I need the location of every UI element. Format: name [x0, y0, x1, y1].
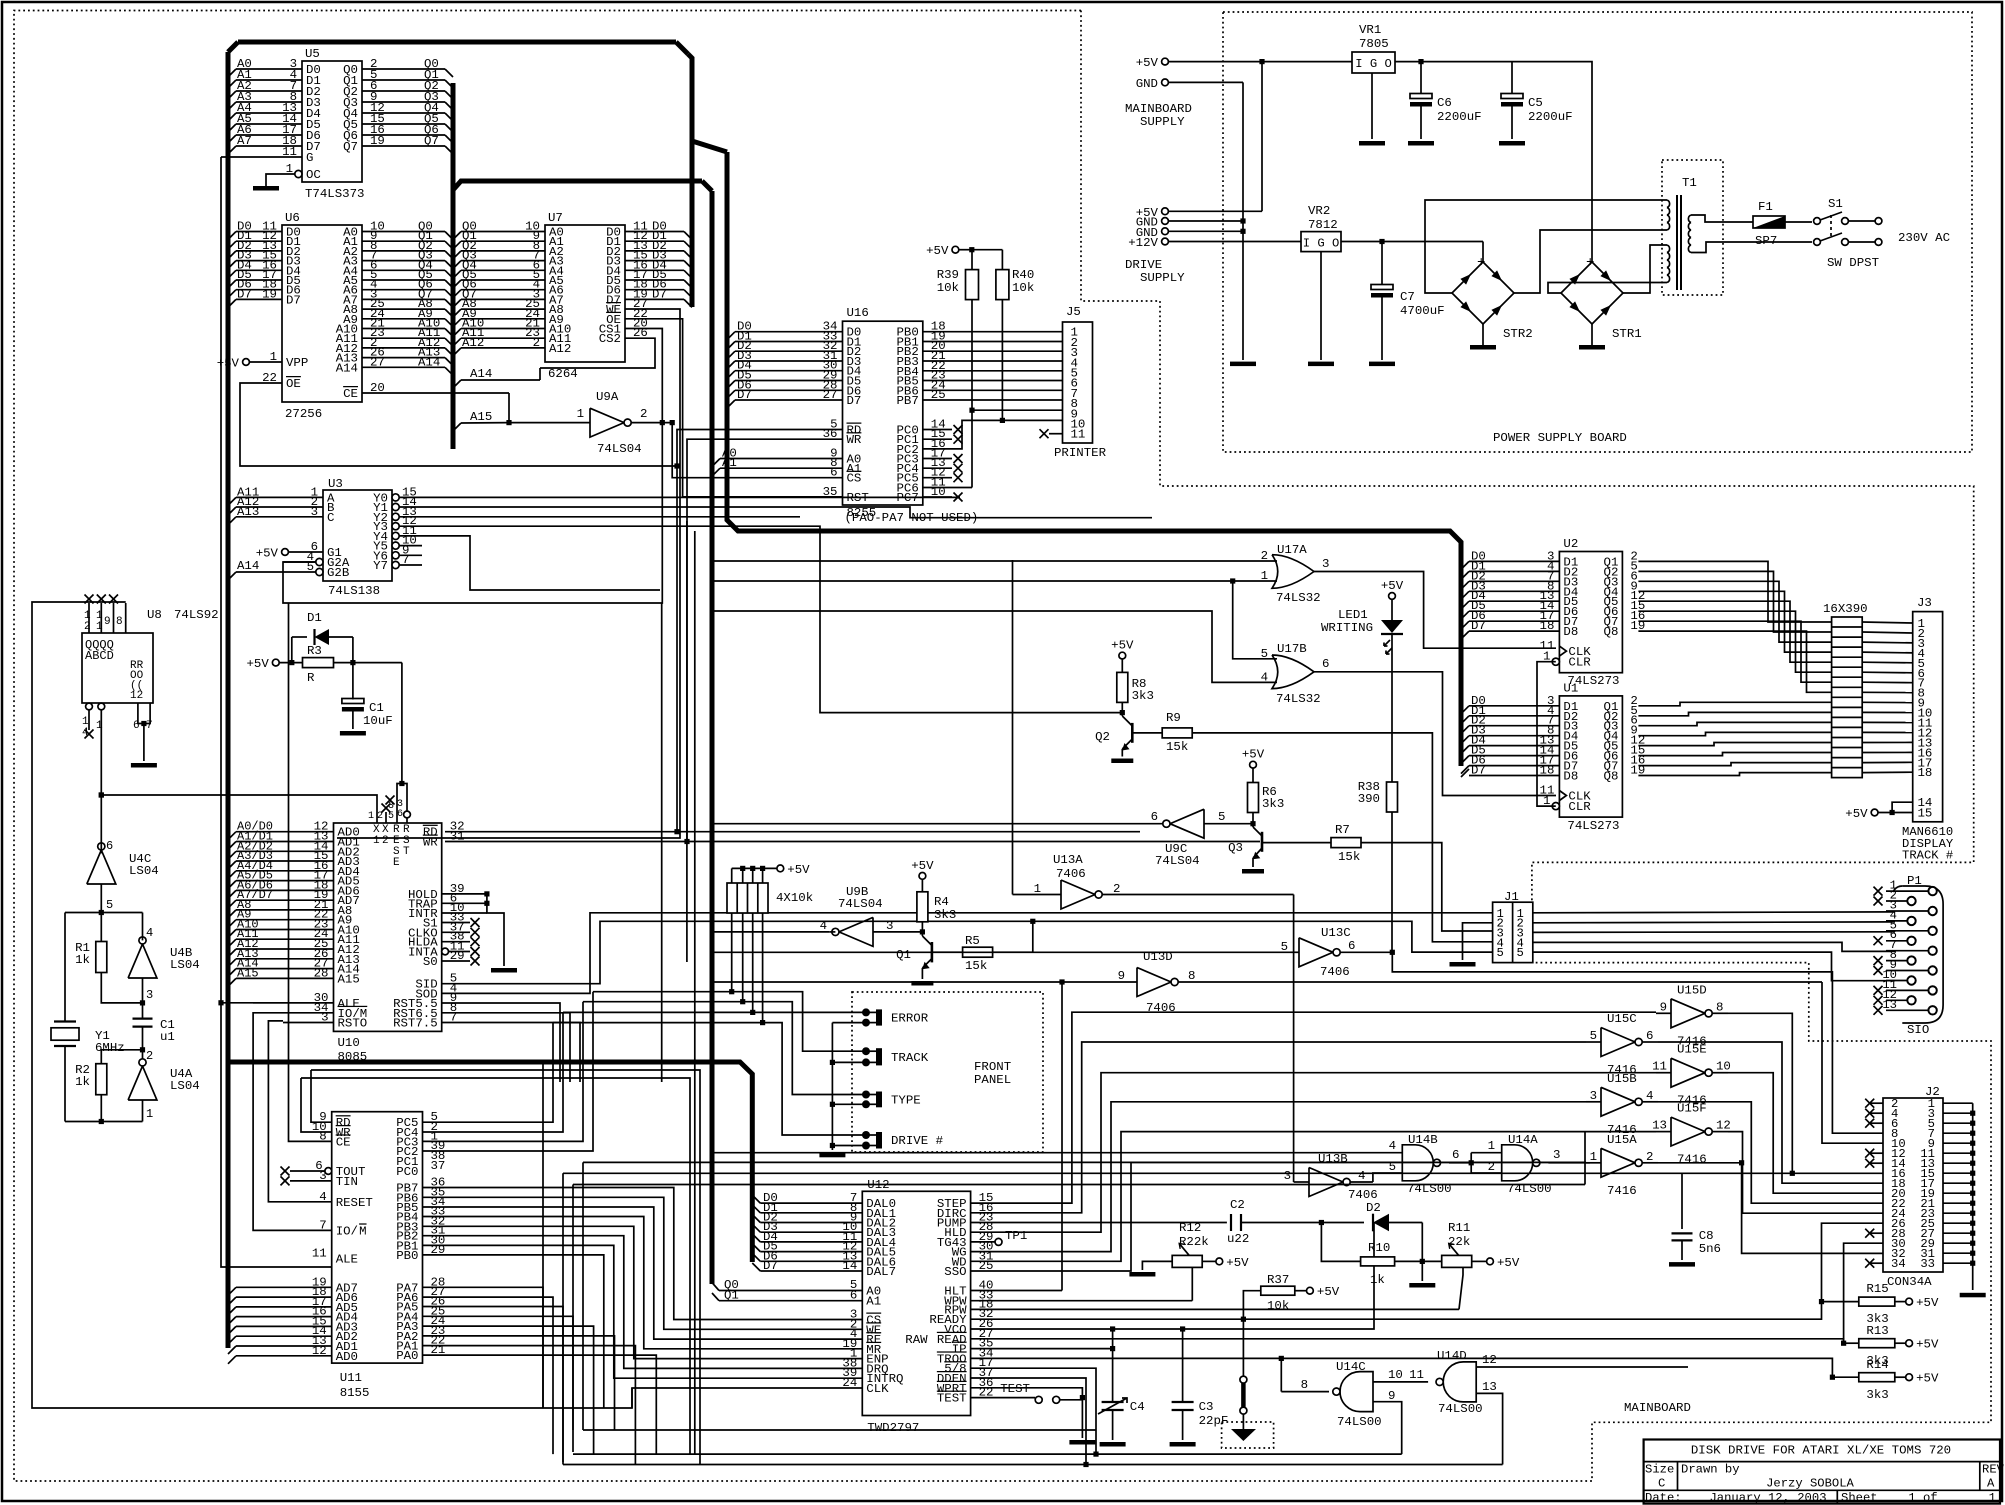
- wire U3 G2A: [316, 558, 323, 565]
- inverter U13A 7406: [1061, 880, 1095, 909]
- svg-text:+5V: +5V: [926, 244, 949, 258]
- wire U13B out to U14B: [1373, 1173, 1402, 1182]
- svg-text:S0: S0: [423, 955, 438, 969]
- svg-text:T: T: [403, 846, 410, 858]
- wire pack row2 to TYPE: [583, 1002, 866, 1095]
- wire U12 PUMP run to C2: [971, 1222, 1227, 1224]
- svg-text:RST: RST: [847, 491, 869, 505]
- transformer core: [1676, 195, 1678, 290]
- wire U12 DAL6 row: [760, 1260, 862, 1262]
- svg-text:3k3: 3k3: [934, 908, 956, 922]
- wire Y3 run: [422, 526, 1122, 712]
- resistor R2 1k: [96, 1064, 107, 1095]
- wire P1 pin 2: [1907, 897, 1915, 905]
- wire U12 HLD run: [971, 1073, 1656, 1233]
- wire U8 QB pin: [100, 603, 102, 633]
- inverter U15F 7416: [1671, 1117, 1705, 1146]
- svg-text:U9A: U9A: [596, 390, 619, 404]
- nand U14D 74LS00: [1443, 1362, 1476, 1402]
- wire U14D input 12: [1476, 1366, 1688, 1368]
- svg-text:+5V: +5V: [1317, 1285, 1340, 1299]
- wire 4X10k pin 4 bottom: [762, 913, 764, 1023]
- wire U1 Q7 to network: [1638, 763, 1831, 766]
- svg-text:74LS273: 74LS273: [1567, 819, 1619, 833]
- wire U7 A0 row: [453, 232, 461, 240]
- regulator VR1 7805: [1352, 52, 1395, 73]
- svg-text:1: 1: [1261, 569, 1268, 583]
- svg-text:Size: Size: [1645, 1463, 1674, 1477]
- svg-text:J1: J1: [1504, 890, 1519, 904]
- wire U2 D7 row: [1461, 621, 1469, 629]
- svg-text:STR2: STR2: [1503, 327, 1533, 341]
- svg-text:1k: 1k: [75, 953, 90, 967]
- svg-text:Q1: Q1: [896, 948, 911, 962]
- svg-text:I G O: I G O: [1355, 57, 1392, 71]
- svg-text:9: 9: [1118, 969, 1125, 983]
- wire U13D out to J2 pin10: [1822, 982, 1883, 1143]
- svg-text:3: 3: [319, 1169, 326, 1183]
- wire 4X10k pin 1 bottom: [731, 913, 733, 992]
- svg-text:19: 19: [262, 287, 277, 301]
- svg-text:+5V: +5V: [787, 863, 810, 877]
- svg-text:TEST: TEST: [937, 1392, 967, 1406]
- diode D2: [1321, 1222, 1364, 1224]
- front panel dashed box: [852, 992, 1043, 1152]
- wire J2 right common ground: [1972, 1103, 1974, 1290]
- svg-text:12: 12: [130, 690, 143, 702]
- capacitor C7 4700uF: [1381, 242, 1383, 286]
- bridge rectifier STR1: [1561, 262, 1623, 324]
- svg-text:R3: R3: [307, 644, 322, 658]
- wire U8 RO pins to ground: [137, 703, 139, 724]
- wire U11 PB4 run: [423, 1217, 863, 1349]
- svg-text:R14: R14: [1866, 1358, 1888, 1372]
- svg-text:SIO: SIO: [1907, 1023, 1929, 1037]
- svg-text:RAW: RAW: [905, 1333, 928, 1347]
- svg-text:R7: R7: [1335, 823, 1350, 837]
- wire U10 A12 row: [228, 949, 236, 957]
- LED LED1 WRITING: [1389, 593, 1396, 600]
- inverter U13D 7406: [1137, 968, 1171, 997]
- wire U13C output: [1340, 951, 1392, 953]
- latch U5 74LS373: [302, 61, 362, 182]
- wire U5 D2/Q2 row: [228, 91, 236, 99]
- svg-text:T74LS373: T74LS373: [305, 187, 365, 201]
- svg-text:3k3: 3k3: [1262, 797, 1284, 811]
- wire J2 pin16 from C8 line: [1682, 1172, 1883, 1174]
- wire U10 AD5 row: [228, 881, 236, 889]
- wire U7 A2 row: [453, 251, 461, 259]
- svg-text:15k: 15k: [965, 959, 987, 973]
- wire U12 A1 row: [712, 1293, 719, 1301]
- wire R38 bottom to U13C out: [1391, 812, 1393, 952]
- title block: [1644, 1440, 2000, 1504]
- svg-text:6: 6: [397, 809, 403, 820]
- wire Q2 emitter to ground: [1121, 749, 1123, 757]
- svg-text:+5V: +5V: [911, 859, 934, 873]
- wire U12 SSO run: [971, 1162, 1586, 1271]
- svg-text:D7: D7: [652, 287, 667, 301]
- svg-text:Q1: Q1: [724, 1289, 739, 1303]
- wire VR2 out: [1341, 241, 1483, 243]
- svg-text:6MHz: 6MHz: [95, 1041, 125, 1055]
- svg-text:1: 1: [96, 621, 103, 633]
- wire U10 A14 row: [228, 969, 236, 977]
- svg-text:8: 8: [116, 616, 123, 628]
- svg-text:R22k: R22k: [1179, 1235, 1209, 1249]
- wire J2 pin26 R15: [1822, 1223, 1884, 1301]
- svg-text:Y7: Y7: [373, 559, 388, 573]
- svg-text:U1: U1: [1563, 681, 1578, 695]
- wire 4X10k pin 3 top: [752, 868, 754, 883]
- capacitor C4 variable: [1112, 1329, 1114, 1402]
- svg-text:U14A: U14A: [1508, 1133, 1538, 1147]
- wire U10 AD2 row: [228, 851, 236, 859]
- inverter U13C 7406: [1299, 938, 1333, 967]
- wire U7 A11 row: [453, 338, 461, 346]
- transformer T1: [1662, 160, 1723, 295]
- resistor R3: [272, 659, 279, 666]
- wire U9A input A15: [509, 422, 590, 424]
- wire U9C output: [1140, 823, 1163, 825]
- svg-text:TEST: TEST: [1000, 1382, 1030, 1396]
- wire U2 Q8 to network: [1638, 631, 1831, 692]
- switch DRIVE #: [862, 1131, 870, 1139]
- wire U3 G1 +5V: [282, 549, 289, 556]
- wire U7 A8 row: [453, 309, 461, 317]
- svg-text:35: 35: [823, 485, 838, 499]
- svg-text:U15A: U15A: [1607, 1133, 1637, 1147]
- wire J5 pin10 from R40: [1002, 419, 1062, 421]
- wire U4A input: [142, 1100, 144, 1122]
- svg-text:4X10k: 4X10k: [776, 891, 813, 905]
- resistor R5 15k: [963, 947, 993, 957]
- connector +5V drive: [1162, 208, 1169, 215]
- wire C1 node to R2: [101, 1050, 142, 1064]
- wire U11 PB0 run: [423, 1255, 604, 1408]
- svg-text:33: 33: [1920, 1257, 1935, 1271]
- wire U13D output: [1178, 981, 1822, 983]
- nand U14C 74LS00: [1340, 1372, 1373, 1412]
- wire U6 D2 row: [228, 251, 236, 259]
- resistor R40 10k: [996, 270, 1009, 300]
- wire P1 pin 9: [1928, 966, 1936, 974]
- svg-text:C1: C1: [369, 701, 384, 715]
- svg-text:10uF: 10uF: [363, 714, 393, 728]
- svg-text:C3: C3: [1199, 1400, 1214, 1414]
- wire U11 PB7 run: [423, 1188, 863, 1320]
- wire U1 D4 row: [1461, 736, 1469, 744]
- capacitor C8 5n6: [1681, 1173, 1683, 1229]
- wire U3 G2A run: [283, 561, 316, 563]
- wire +12V to bridge STR2: [1482, 242, 1484, 263]
- svg-text:FRONT: FRONT: [974, 1060, 1011, 1074]
- wire U11 PA2 run: [423, 1336, 615, 1430]
- svg-text:A14: A14: [237, 559, 259, 573]
- svg-text:+12V: +12V: [1128, 236, 1158, 250]
- wire U7 A5 row: [453, 280, 461, 288]
- EPROM U6 27256: [282, 225, 362, 402]
- svg-text:A14: A14: [470, 367, 492, 381]
- resistor R39 10k: [966, 270, 979, 300]
- wire U1 Q3 to network: [1638, 722, 1831, 725]
- wire U13C out to J2 pin8: [1392, 952, 1883, 1133]
- svg-text:G2B: G2B: [327, 566, 349, 580]
- wire J1 row3 to P1 pin5: [1533, 931, 1895, 934]
- wire U16 D2 row: [727, 351, 735, 359]
- wire P1 pin 6: [1907, 937, 1915, 945]
- svg-text:27: 27: [370, 355, 385, 369]
- svg-text:+: +: [1586, 255, 1594, 271]
- wire mid rails under U10: [311, 1070, 700, 1465]
- wire R7 right run to J1: [1361, 843, 1493, 931]
- SRAM U7 6264: [545, 225, 625, 362]
- svg-text:U15E: U15E: [1677, 1043, 1707, 1057]
- resistor network 4X10k: [727, 883, 768, 913]
- wire Y4 run: [422, 536, 660, 590]
- svg-text:RSTO: RSTO: [338, 1017, 368, 1031]
- svg-text:OE: OE: [286, 377, 301, 391]
- wire A14 to U7 region: [461, 379, 540, 381]
- wire U13A input: [1013, 894, 1062, 896]
- svg-text:+5V: +5V: [1381, 579, 1404, 593]
- crystal Y1 6MHz: [64, 913, 66, 1021]
- svg-text:+5V: +5V: [1845, 807, 1868, 821]
- wire U12 STEP run: [971, 1012, 1656, 1203]
- svg-text:6: 6: [850, 1289, 857, 1303]
- wire U1 Q5 to network: [1638, 743, 1831, 746]
- svg-text:15k: 15k: [1338, 850, 1360, 864]
- svg-text:D7: D7: [237, 287, 252, 301]
- svg-text:C: C: [327, 511, 334, 525]
- svg-text:4: 4: [146, 926, 153, 940]
- wire U13B output: [1350, 1181, 1373, 1183]
- transistor Q2: [1131, 723, 1134, 743]
- svg-text:3: 3: [1322, 557, 1329, 571]
- svg-text:13: 13: [1482, 1380, 1497, 1394]
- wire U16 RST row: [683, 496, 843, 498]
- svg-text:74LS92: 74LS92: [174, 608, 219, 622]
- svg-text:3k3: 3k3: [1132, 689, 1154, 703]
- wire U12 DAL3 row: [760, 1231, 862, 1233]
- wire U10 RST75 run: [442, 1023, 580, 1083]
- wire U7 A12 row: [453, 348, 461, 356]
- svg-text:9: 9: [1388, 1389, 1395, 1403]
- wire U13A out down to U13B: [1293, 895, 1295, 1183]
- svg-text:7416: 7416: [1607, 1184, 1637, 1198]
- wire U13A output: [1103, 894, 1294, 896]
- wire U3 C row: [228, 517, 236, 525]
- wire vertical runs mid column: [694, 531, 696, 1454]
- wire U3 B row: [228, 507, 236, 515]
- resistor R7 15k: [1331, 838, 1361, 848]
- svg-text:15: 15: [1918, 807, 1933, 821]
- wire U10 AD7 row: [228, 900, 236, 908]
- wire U12 DDEN run: [971, 1378, 1086, 1465]
- svg-text:U15B: U15B: [1607, 1072, 1637, 1086]
- jumper dashed box with ground: [1222, 1422, 1274, 1448]
- wire U10 A13 row: [228, 959, 236, 967]
- wire U9C input: [1204, 823, 1253, 825]
- resistor R13 3k3: [1859, 1339, 1895, 1348]
- svg-text:Date:: Date:: [1645, 1491, 1682, 1505]
- svg-text:WR: WR: [847, 433, 862, 447]
- svg-text:20: 20: [370, 381, 385, 395]
- wire U11 AD0 row: [228, 1356, 236, 1364]
- wire U17B in 5: [1233, 581, 1277, 659]
- svg-text:74LS04: 74LS04: [597, 442, 642, 456]
- svg-text:74LS32: 74LS32: [1276, 692, 1321, 706]
- svg-text:REV: REV: [1982, 1463, 2005, 1477]
- svg-text:1: 1: [1488, 1139, 1495, 1153]
- wire U8 QC pin: [113, 603, 115, 633]
- svg-text:TRACK #: TRACK #: [1902, 849, 1953, 863]
- wire U11 PA6 run: [423, 1297, 554, 1454]
- wire U6 D7 row: [228, 299, 236, 307]
- regulator VR2 7812: [1301, 232, 1341, 252]
- svg-text:C5: C5: [1528, 96, 1543, 110]
- wire U16 A1 row: [712, 468, 720, 476]
- svg-text:74LS00: 74LS00: [1438, 1402, 1483, 1416]
- svg-text:390: 390: [1358, 792, 1380, 806]
- svg-text:7: 7: [402, 553, 409, 567]
- svg-text:11: 11: [282, 145, 297, 159]
- svg-text:7812: 7812: [1308, 218, 1338, 232]
- wire U10 AD6 row: [228, 890, 236, 898]
- svg-text:1k: 1k: [75, 1075, 90, 1089]
- wire U15A out: [1658, 1162, 1742, 1164]
- wire U17A output: [1314, 572, 1556, 649]
- inverter U4C LS04: [87, 850, 116, 884]
- svg-text:VR2: VR2: [1308, 204, 1330, 218]
- RAM/IO U11 8155: [332, 1112, 423, 1363]
- svg-text:74LS00: 74LS00: [1337, 1415, 1382, 1429]
- svg-text:M: M: [359, 1224, 366, 1238]
- register U2 74LS273: [1559, 552, 1622, 673]
- svg-text:4700uF: 4700uF: [1400, 304, 1445, 318]
- svg-text:U6: U6: [285, 211, 300, 225]
- svg-text:D1: D1: [307, 611, 322, 625]
- wire U2 D8 row: [1461, 631, 1469, 639]
- svg-text:I G O: I G O: [1303, 237, 1340, 251]
- svg-text:LED1: LED1: [1338, 608, 1368, 622]
- potentiometer R12 R22k: [1172, 1255, 1202, 1267]
- wire U10 A9 row: [228, 920, 236, 928]
- svg-text:u1: u1: [160, 1030, 175, 1044]
- wire U2 Q2 to network: [1638, 571, 1831, 632]
- wire U11 control verticals: [311, 1070, 332, 1122]
- svg-text:A7: A7: [237, 134, 252, 148]
- svg-text:10k: 10k: [1012, 281, 1034, 295]
- svg-text:1: 1: [146, 1107, 153, 1121]
- wire VR1 ground: [1371, 73, 1373, 139]
- svg-text:3: 3: [146, 988, 153, 1002]
- wire U2 D4 row: [1461, 591, 1469, 599]
- svg-text:CE: CE: [336, 1135, 351, 1149]
- svg-text:F1: F1: [1758, 200, 1773, 214]
- wire J1 row1 to P1 pin3: [1533, 911, 1895, 914]
- wire U12 DAL7 row: [760, 1270, 862, 1272]
- wire U12 HLT run: [971, 1290, 1062, 1292]
- wire J5 pin9 from R39: [972, 409, 1063, 411]
- svg-text:U13D: U13D: [1143, 950, 1173, 964]
- svg-text:OC: OC: [306, 168, 321, 182]
- svg-text:19: 19: [370, 134, 385, 148]
- svg-text:R5: R5: [965, 934, 980, 948]
- svg-text:CLK: CLK: [866, 1382, 889, 1396]
- wire peripheral bus x=712: [702, 181, 712, 191]
- switch TRACK: [862, 1047, 870, 1055]
- wire Q3 emitter ground: [1252, 858, 1254, 867]
- svg-text:E: E: [393, 857, 400, 869]
- svg-text:6: 6: [1322, 657, 1329, 671]
- wire U4B input: [142, 978, 144, 1003]
- svg-text:MAINBOARD: MAINBOARD: [1624, 1401, 1691, 1415]
- wire Q address bus: [451, 83, 456, 449]
- svg-text:U15D: U15D: [1677, 983, 1707, 997]
- wire U12 READ run: [971, 1339, 1844, 1343]
- svg-text:A14: A14: [336, 361, 358, 375]
- wire U12 5/8 run: [971, 1368, 1096, 1454]
- wire U12 DAL0 row: [760, 1202, 862, 1204]
- capacitor C6 2200uF: [1418, 59, 1423, 64]
- wire U10 AD0 row: [228, 832, 236, 840]
- wire U15B out: [1658, 1102, 1883, 1203]
- svg-text:2: 2: [1113, 882, 1120, 896]
- wire U2 Q1 to network: [1638, 561, 1831, 622]
- wire 4X10k pin 1 top: [731, 868, 733, 883]
- svg-text:+5V: +5V: [1916, 1372, 1939, 1386]
- svg-text:12: 12: [1716, 1119, 1731, 1133]
- wire U3 A row: [228, 497, 236, 505]
- svg-text:6: 6: [1646, 1029, 1653, 1043]
- wire U3 G2B A14: [316, 568, 323, 575]
- svg-text:18: 18: [1540, 764, 1555, 778]
- svg-text:PB7: PB7: [896, 394, 918, 408]
- wire U13D input from HLT: [1061, 982, 1063, 1291]
- wire P1 pin 10: [1907, 976, 1915, 984]
- wire U11 PB1 run: [423, 1245, 863, 1378]
- svg-text:1 of: 1 of: [1908, 1491, 1937, 1505]
- wire CLR common: [1537, 662, 1556, 806]
- inverter U9C 74LS04: [1170, 809, 1204, 838]
- wire U16 D7 row: [727, 400, 735, 408]
- svg-text:74LS04: 74LS04: [838, 897, 883, 911]
- wire RD to U16: [677, 430, 843, 832]
- wire U6 D4 row: [228, 270, 236, 278]
- wire U1 D5 row: [1461, 746, 1469, 754]
- resistor R8 3k3: [1119, 652, 1126, 659]
- wire Y1 run: [422, 507, 1152, 518]
- wire primary to fuse: [1691, 215, 1753, 222]
- wire U12 TG43 TP1: [971, 1241, 995, 1243]
- svg-text:+5V: +5V: [1242, 748, 1265, 762]
- wire U16 PC6 run: [952, 487, 972, 489]
- wire P1 pin 11: [1928, 986, 1936, 994]
- wire U16 D5 row: [727, 381, 735, 389]
- svg-text:U13B: U13B: [1318, 1152, 1348, 1166]
- wire U9B output: [829, 931, 835, 933]
- wire U12 VCO run: [971, 1223, 1374, 1330]
- or-gate U17B 74LS32: [1272, 655, 1314, 689]
- wire U5 D3/Q3 row: [228, 102, 236, 110]
- svg-text:R40: R40: [1012, 268, 1034, 282]
- wire U11 PA5 run: [423, 1307, 564, 1465]
- wire U14A output: [1548, 1162, 1589, 1164]
- svg-text:18: 18: [1540, 619, 1555, 633]
- svg-text:CLR: CLR: [1568, 656, 1591, 670]
- resistor R9 15k: [1162, 728, 1192, 738]
